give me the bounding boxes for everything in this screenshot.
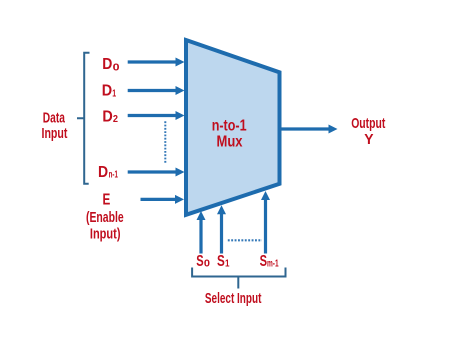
svg-text:Output: Output [351, 115, 385, 132]
svg-text:S: S [217, 253, 225, 270]
svg-text:S: S [260, 253, 267, 270]
svg-text:2: 2 [113, 113, 118, 125]
svg-text:Input: Input [42, 125, 68, 142]
svg-text:Y: Y [364, 131, 373, 148]
svg-text:1: 1 [112, 87, 116, 99]
svg-text:0: 0 [204, 258, 210, 270]
svg-text:D: D [98, 164, 108, 181]
svg-text:0: 0 [113, 61, 120, 73]
svg-text:S: S [196, 253, 203, 270]
svg-text:(Enable: (Enable [86, 209, 124, 226]
svg-text:Input): Input) [90, 225, 121, 242]
svg-text:E: E [103, 192, 111, 209]
svg-text:D: D [102, 83, 112, 100]
svg-text:Select Input: Select Input [205, 290, 262, 307]
svg-text:D: D [102, 56, 112, 73]
svg-text:1: 1 [225, 258, 230, 270]
svg-text:n-1: n-1 [109, 169, 118, 181]
svg-text:n-to-1: n-to-1 [212, 117, 247, 134]
svg-text:Mux: Mux [217, 133, 243, 150]
svg-text:m-1: m-1 [267, 258, 279, 270]
svg-text:D: D [102, 108, 112, 125]
